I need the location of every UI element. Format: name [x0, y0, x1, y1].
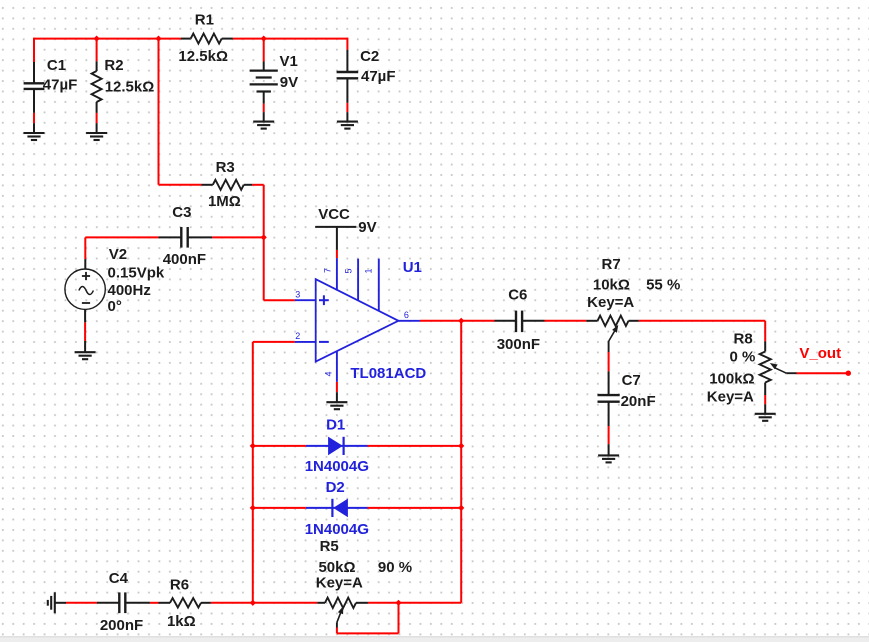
svg-text:C6: C6: [508, 286, 527, 303]
svg-text:100kΩ: 100kΩ: [709, 370, 754, 387]
svg-text:1: 1: [364, 268, 374, 273]
svg-text:0.15Vpk: 0.15Vpk: [108, 264, 165, 281]
svg-text:C1: C1: [47, 57, 66, 74]
svg-text:V_out: V_out: [799, 345, 841, 362]
svg-text:12.5kΩ: 12.5kΩ: [178, 48, 228, 65]
svg-text:C7: C7: [622, 372, 641, 389]
svg-text:TL081ACD: TL081ACD: [350, 365, 426, 382]
svg-text:90 %: 90 %: [378, 559, 412, 576]
svg-text:C4: C4: [109, 570, 129, 587]
svg-text:20nF: 20nF: [621, 393, 656, 410]
svg-text:10kΩ: 10kΩ: [593, 277, 630, 294]
svg-text:55 %: 55 %: [646, 277, 680, 294]
svg-text:9V: 9V: [280, 74, 298, 91]
svg-text:5: 5: [344, 268, 354, 273]
svg-text:C3: C3: [172, 204, 191, 221]
svg-text:VCC: VCC: [318, 206, 350, 223]
svg-text:47µF: 47µF: [361, 68, 396, 85]
svg-text:R5: R5: [320, 538, 339, 555]
svg-text:D2: D2: [326, 479, 345, 496]
svg-text:R6: R6: [170, 577, 189, 594]
svg-text:1N4004G: 1N4004G: [305, 458, 369, 475]
svg-text:4: 4: [323, 371, 333, 376]
svg-text:R7: R7: [602, 256, 621, 273]
svg-text:U1: U1: [403, 259, 422, 276]
svg-text:6: 6: [404, 310, 409, 320]
svg-text:50kΩ: 50kΩ: [318, 559, 355, 576]
svg-text:3: 3: [295, 289, 300, 299]
svg-text:47µF: 47µF: [43, 77, 78, 94]
svg-text:R2: R2: [104, 57, 123, 74]
svg-text:R8: R8: [734, 330, 753, 347]
svg-text:Key=A: Key=A: [587, 294, 634, 311]
svg-text:Key=A: Key=A: [316, 575, 363, 592]
svg-text:R1: R1: [195, 11, 214, 28]
svg-text:200nF: 200nF: [100, 617, 143, 634]
svg-text:2: 2: [295, 331, 300, 341]
svg-text:V1: V1: [280, 53, 298, 70]
svg-text:300nF: 300nF: [497, 336, 540, 353]
svg-text:D1: D1: [326, 416, 345, 433]
svg-text:9V: 9V: [358, 219, 376, 236]
svg-text:0°: 0°: [108, 298, 122, 315]
svg-text:12.5kΩ: 12.5kΩ: [105, 78, 155, 95]
svg-text:400Hz: 400Hz: [108, 282, 151, 299]
svg-text:1MΩ: 1MΩ: [208, 193, 241, 210]
svg-text:7: 7: [323, 268, 333, 273]
svg-text:0 %: 0 %: [729, 349, 755, 366]
svg-text:R3: R3: [216, 159, 235, 176]
svg-text:Key=A: Key=A: [707, 388, 754, 405]
svg-text:400nF: 400nF: [163, 251, 206, 268]
svg-text:1N4004G: 1N4004G: [305, 521, 369, 538]
svg-text:1kΩ: 1kΩ: [167, 613, 196, 630]
svg-text:C2: C2: [360, 48, 379, 65]
svg-text:V2: V2: [109, 246, 127, 263]
